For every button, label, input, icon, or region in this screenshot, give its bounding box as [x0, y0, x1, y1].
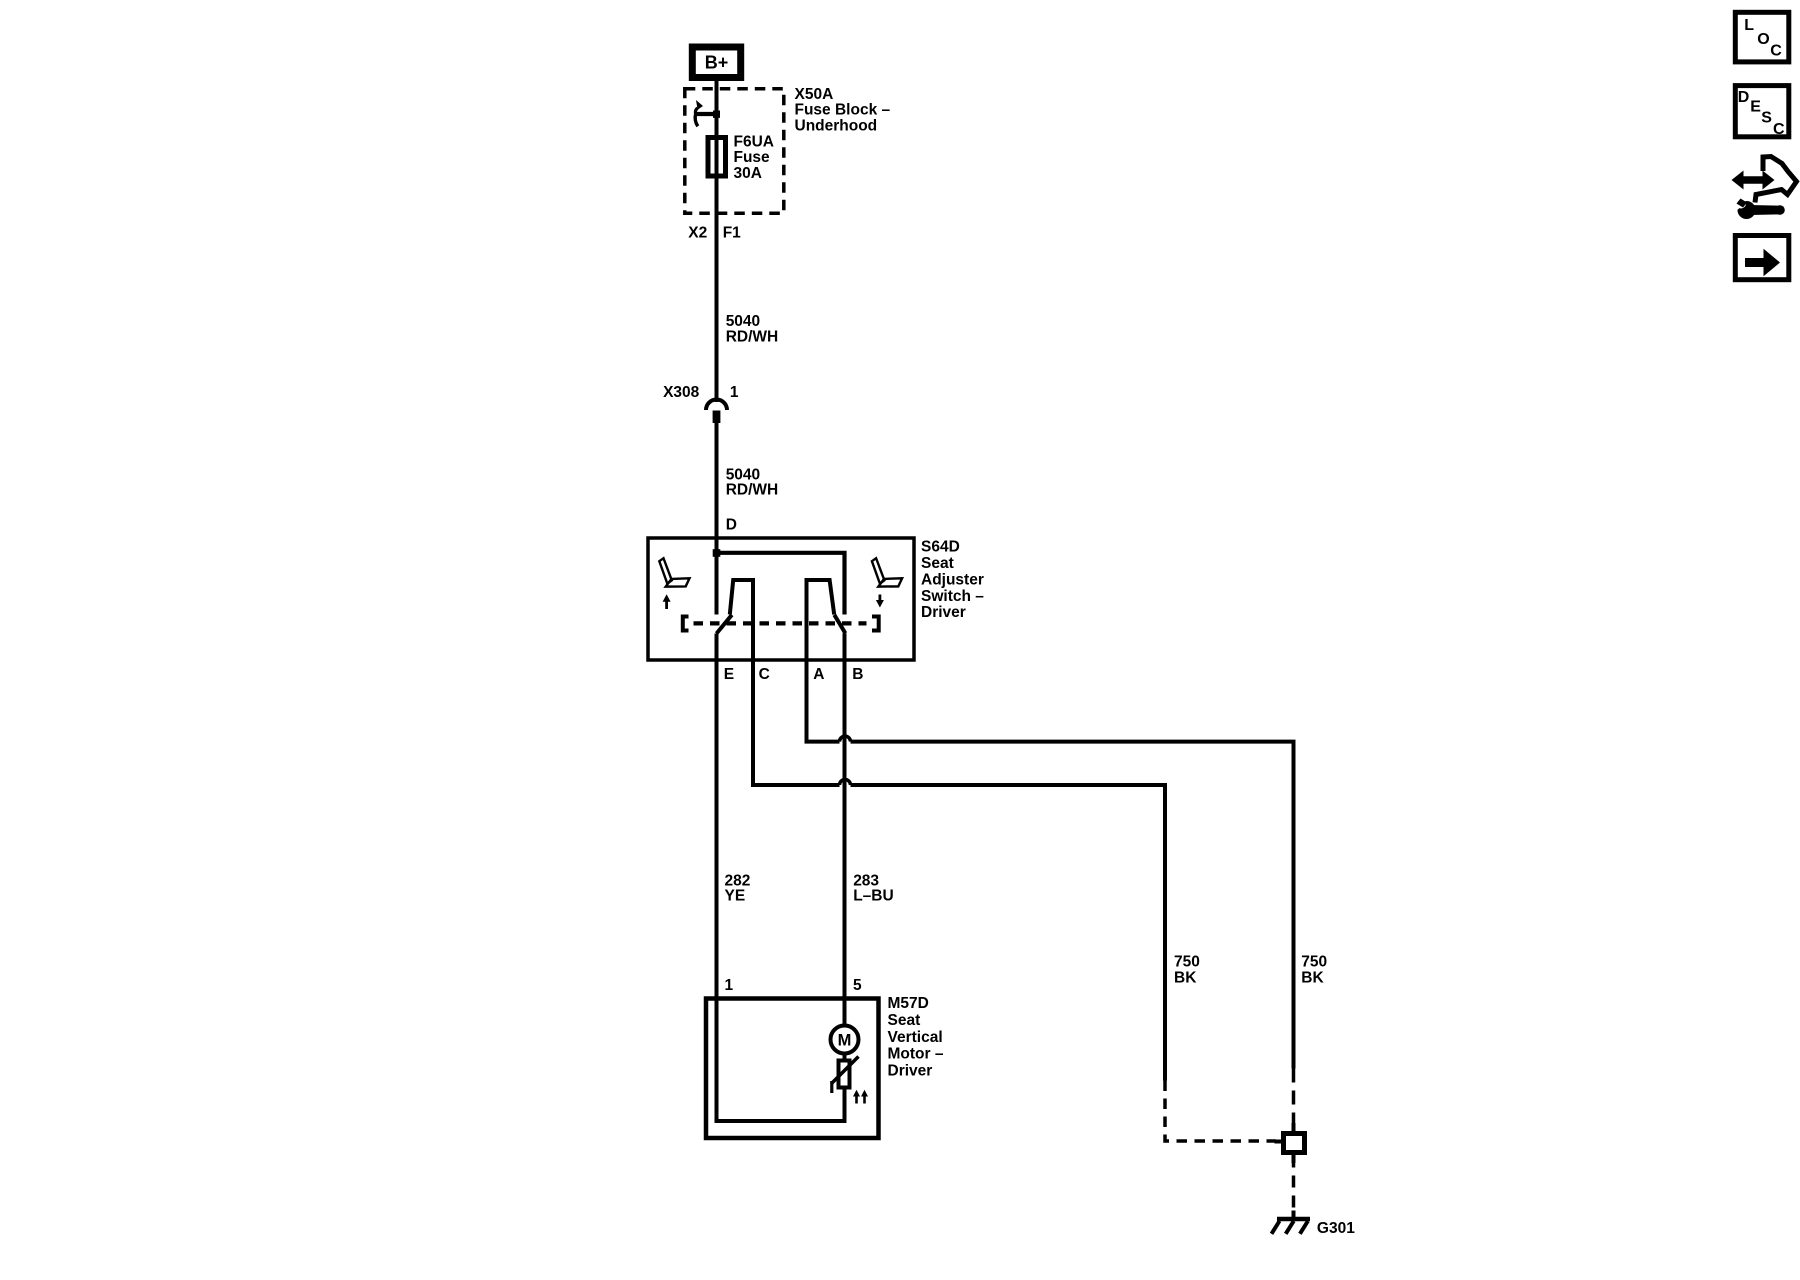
svg-text:L: L — [1744, 17, 1754, 34]
svg-text:C: C — [1773, 121, 1785, 138]
dashed wire A branch to splice — [1292, 1069, 1296, 1129]
svg-text:D: D — [1738, 89, 1750, 106]
svg-text:RD/WH: RD/WH — [726, 482, 779, 499]
switch arm right (B) — [834, 615, 845, 634]
label pin B — [852, 666, 863, 683]
crossbar bracket left — [683, 617, 689, 631]
label pin E — [724, 666, 734, 683]
svg-text:F1: F1 — [723, 225, 741, 242]
ground G301 — [1272, 1211, 1356, 1238]
splice box G301 — [1275, 1123, 1305, 1163]
thermal protector — [832, 1057, 859, 1094]
arrow up (left seat) — [663, 594, 671, 609]
svg-text:Switch –: Switch – — [921, 588, 984, 605]
svg-text:M: M — [838, 1032, 852, 1050]
svg-text:Fuse: Fuse — [734, 149, 771, 166]
svg-text:30A: 30A — [734, 165, 762, 182]
svg-text:X2: X2 — [688, 225, 707, 242]
svg-text:Adjuster: Adjuster — [921, 571, 984, 588]
wire label 5040 RD/WH lower — [726, 466, 779, 498]
icon box forward arrow — [1735, 236, 1789, 280]
wire 283 L-BU (B to motor pin 5) — [843, 633, 847, 998]
svg-text:Seat: Seat — [921, 555, 954, 572]
svg-text:Motor –: Motor – — [888, 1046, 944, 1063]
fuse F6UA 30A — [708, 133, 774, 181]
svg-text:Driver: Driver — [921, 604, 966, 621]
svg-text:BK: BK — [1174, 969, 1197, 986]
svg-text:5: 5 — [853, 977, 862, 994]
icon reroute arrows and wrench — [1730, 157, 1797, 220]
svg-text:C: C — [1770, 43, 1782, 60]
svg-text:G301: G301 — [1317, 1220, 1355, 1237]
svg-text:E: E — [724, 666, 734, 683]
svg-text:C: C — [759, 666, 770, 683]
svg-text:A: A — [813, 666, 824, 683]
svg-text:L–BU: L–BU — [853, 888, 893, 905]
dashed wire C branch to splice — [1165, 1081, 1276, 1142]
svg-text:O: O — [1757, 31, 1769, 48]
svg-text:RD/WH: RD/WH — [726, 328, 779, 345]
svg-text:X50A: X50A — [795, 86, 834, 103]
svg-text:S: S — [1761, 109, 1772, 126]
svg-text:F6UA: F6UA — [734, 133, 774, 150]
wire B+ feed — [715, 81, 719, 402]
fuse block internal connection pigtail — [695, 100, 720, 126]
icon box LOC — [1735, 12, 1789, 62]
wire label 283 L-BU — [853, 872, 893, 904]
wire label 282 YE — [725, 872, 751, 904]
label pin D — [726, 516, 737, 533]
label X2 — [688, 225, 707, 242]
label S64D Seat Adjuster Switch Driver — [921, 539, 984, 622]
svg-text:Seat: Seat — [888, 1012, 921, 1029]
branch wire D to right contact — [717, 553, 845, 615]
motor internal wiring — [717, 999, 845, 1122]
wire label 750 BK left — [1174, 954, 1200, 987]
thermal arrows — [853, 1090, 868, 1104]
svg-text:YE: YE — [725, 888, 746, 905]
motor M57D box — [706, 999, 879, 1139]
svg-text:Vertical: Vertical — [888, 1029, 943, 1046]
svg-text:1: 1 — [730, 384, 739, 401]
contact prong C + wire 750 BK branch (C) — [730, 580, 1165, 1081]
dashed wire splice to ground — [1292, 1156, 1296, 1214]
switch arm left (E-C) — [717, 615, 732, 634]
svg-text:X308: X308 — [663, 384, 700, 401]
power symbol B+ — [692, 47, 740, 78]
motor M — [831, 1026, 859, 1061]
label M57D Seat Vertical Motor Driver — [888, 995, 944, 1079]
label pin A — [813, 666, 824, 683]
connector X308 pin 1 — [663, 384, 739, 423]
svg-text:750: 750 — [1301, 954, 1327, 971]
seat icon down (right) — [872, 558, 902, 586]
seat icon up (left) — [659, 558, 689, 586]
junction dot node D — [713, 549, 721, 557]
icon box DESC — [1735, 86, 1789, 139]
label pin C — [759, 666, 770, 683]
arrow down (right seat) — [876, 595, 884, 608]
svg-text:B+: B+ — [705, 53, 729, 73]
switch crossbar dashed — [694, 621, 867, 625]
wire motor pin 5 lead — [843, 999, 847, 1027]
svg-text:Driver: Driver — [888, 1062, 933, 1079]
contact prong A + wire 750 BK branch (A) — [807, 580, 1294, 1069]
svg-text:M57D: M57D — [888, 995, 929, 1012]
wire 5040 RD/WH lower — [715, 423, 719, 615]
label pin 5 — [853, 977, 862, 994]
label X50A Fuse Block Underhood — [795, 86, 891, 134]
wire 282 YE (E to motor pin 1) — [715, 634, 719, 999]
svg-text:1: 1 — [725, 977, 734, 994]
crossbar bracket right — [872, 617, 879, 631]
switch S64D box — [648, 538, 914, 660]
svg-text:Fuse Block –: Fuse Block – — [795, 102, 891, 119]
label pin 1 — [725, 977, 734, 994]
label F1 — [723, 225, 741, 242]
svg-text:BK: BK — [1301, 969, 1324, 986]
svg-text:750: 750 — [1174, 954, 1200, 971]
svg-text:D: D — [726, 516, 737, 533]
wire label 5040 RD/WH upper — [726, 313, 779, 345]
svg-text:S64D: S64D — [921, 539, 960, 556]
fuse block X50A dashed box — [685, 89, 784, 214]
wire label 750 BK right — [1301, 954, 1327, 987]
svg-text:Underhood: Underhood — [795, 117, 878, 134]
svg-text:E: E — [1750, 98, 1761, 115]
svg-text:B: B — [852, 666, 863, 683]
